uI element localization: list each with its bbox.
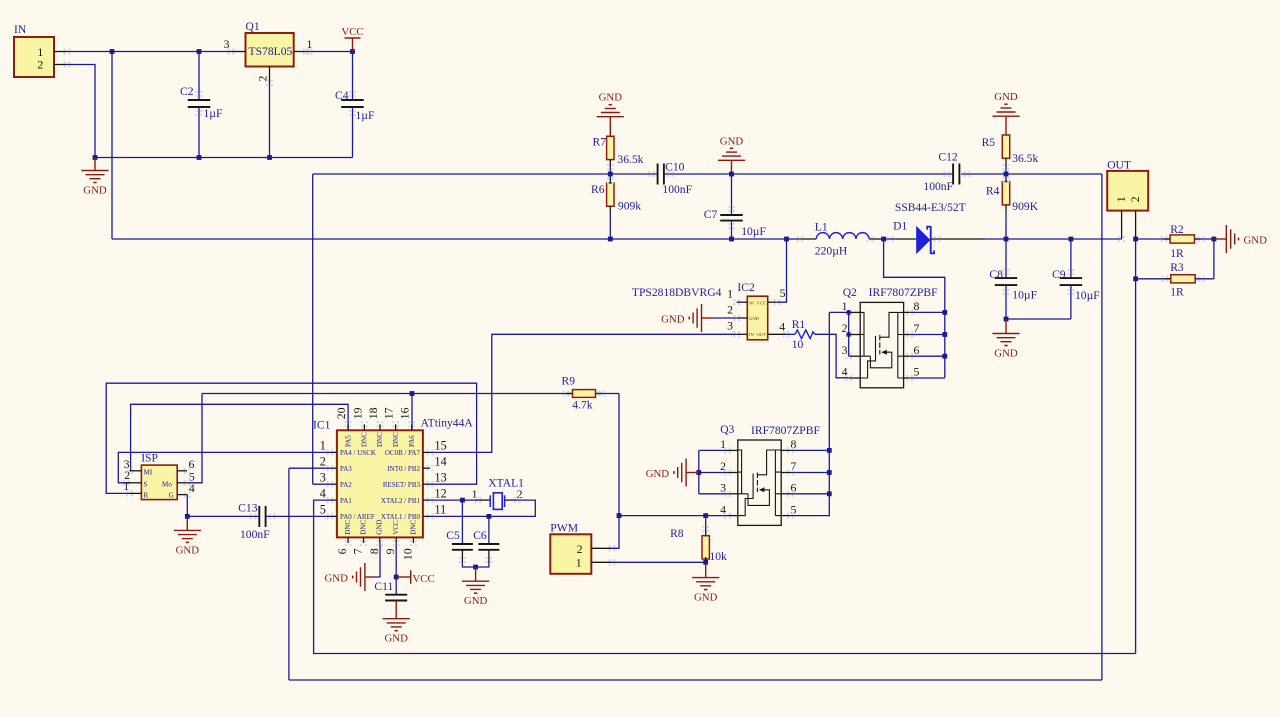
- svg-text:2: 2: [320, 455, 326, 469]
- svg-text:GND: GND: [749, 316, 760, 321]
- svg-text:D1: D1: [893, 219, 907, 232]
- svg-text:3: 3: [320, 471, 326, 485]
- svg-text:DNC: DNC: [359, 520, 367, 535]
- svg-text:GND: GND: [599, 92, 623, 104]
- svg-text:SSB44-E3/52T: SSB44-E3/52T: [895, 201, 966, 214]
- svg-text:OC0B / PA7: OC0B / PA7: [385, 449, 421, 457]
- svg-text:XTAL2 / PB1: XTAL2 / PB1: [381, 497, 421, 505]
- svg-text:Mo: Mo: [162, 481, 172, 489]
- svg-text:10µF: 10µF: [741, 225, 766, 238]
- svg-text:1: 1: [727, 287, 733, 301]
- svg-text:PA1: PA1: [340, 497, 352, 505]
- svg-text:8: 8: [914, 299, 920, 313]
- svg-text:R1: R1: [792, 318, 806, 331]
- svg-text:DNC: DNC: [376, 432, 384, 447]
- svg-text:10µF: 10µF: [1075, 289, 1100, 302]
- svg-text:C13: C13: [238, 501, 258, 514]
- svg-text:2: 2: [37, 58, 43, 72]
- svg-text:10: 10: [792, 338, 804, 351]
- svg-text:R9: R9: [562, 375, 576, 388]
- svg-text:PA0 / AREF: PA0 / AREF: [340, 513, 375, 521]
- svg-text:ATtiny44A: ATtiny44A: [421, 417, 474, 430]
- svg-text:7: 7: [914, 321, 920, 335]
- svg-text:1: 1: [576, 556, 582, 570]
- svg-text:R2: R2: [1170, 223, 1184, 236]
- svg-text:C4: C4: [335, 89, 349, 102]
- svg-text:S: S: [144, 481, 148, 489]
- svg-text:RESET/ PB3: RESET/ PB3: [383, 481, 421, 489]
- svg-text:4.7k: 4.7k: [572, 399, 592, 412]
- svg-text:IN: IN: [14, 23, 27, 36]
- svg-text:R: R: [144, 492, 149, 500]
- svg-text:R5: R5: [982, 136, 996, 149]
- svg-text:17: 17: [382, 407, 396, 419]
- svg-text:GND: GND: [661, 314, 685, 326]
- svg-text:18: 18: [366, 407, 380, 419]
- svg-text:9: 9: [383, 548, 397, 554]
- svg-text:11: 11: [435, 503, 447, 517]
- svg-text:C2: C2: [180, 85, 194, 98]
- svg-text:PA2: PA2: [340, 481, 352, 489]
- svg-text:DNC: DNC: [392, 432, 400, 447]
- svg-text:100nF: 100nF: [923, 180, 953, 193]
- svg-text:MI: MI: [144, 469, 153, 477]
- svg-text:1R: 1R: [1170, 247, 1184, 260]
- svg-text:C11: C11: [374, 580, 393, 593]
- svg-text:13: 13: [435, 471, 447, 485]
- svg-text:IC1: IC1: [313, 419, 331, 432]
- svg-text:16: 16: [398, 407, 412, 419]
- svg-text:GND: GND: [83, 185, 107, 197]
- svg-text:1: 1: [320, 439, 326, 453]
- svg-text:4: 4: [320, 486, 326, 500]
- svg-text:909k: 909k: [618, 199, 641, 212]
- svg-text:IRF7807ZPBF: IRF7807ZPBF: [751, 424, 820, 437]
- svg-text:6: 6: [914, 343, 920, 357]
- svg-text:36.5k: 36.5k: [617, 153, 643, 166]
- svg-text:PA5: PA5: [344, 435, 352, 447]
- svg-text:GND: GND: [646, 468, 670, 480]
- svg-text:10k: 10k: [709, 550, 727, 563]
- svg-text:3: 3: [727, 319, 733, 333]
- svg-text:PWM: PWM: [550, 522, 578, 535]
- svg-text:OUT: OUT: [757, 332, 767, 337]
- svg-text:6: 6: [335, 548, 349, 554]
- svg-text:R4: R4: [986, 185, 1000, 198]
- svg-text:NC: NC: [749, 300, 755, 305]
- svg-text:1µF: 1µF: [204, 107, 223, 120]
- svg-text:7: 7: [351, 548, 365, 554]
- svg-text:GND: GND: [1244, 235, 1268, 247]
- svg-text:2: 2: [1128, 196, 1142, 202]
- svg-text:100nF: 100nF: [240, 528, 270, 541]
- svg-text:VCC: VCC: [392, 520, 400, 535]
- svg-text:GND: GND: [176, 544, 200, 556]
- svg-text:INT0 / PB2: INT0 / PB2: [387, 465, 420, 473]
- svg-text:TS78L05: TS78L05: [249, 45, 293, 58]
- svg-text:L1: L1: [815, 221, 828, 234]
- svg-text:1R: 1R: [1170, 286, 1184, 299]
- svg-text:GND: GND: [324, 573, 348, 585]
- svg-text:GND: GND: [384, 633, 408, 645]
- svg-text:100nF: 100nF: [662, 183, 692, 196]
- svg-text:Q1: Q1: [246, 20, 260, 33]
- svg-text:DNC: DNC: [409, 520, 417, 535]
- svg-text:R8: R8: [670, 527, 684, 540]
- svg-text:8: 8: [367, 548, 381, 554]
- svg-text:R6: R6: [591, 183, 605, 196]
- svg-text:14: 14: [435, 455, 447, 469]
- svg-text:XTAL1 / PB0: XTAL1 / PB0: [381, 513, 421, 521]
- svg-text:TPS2818DBVRG4: TPS2818DBVRG4: [632, 286, 722, 299]
- svg-text:220µH: 220µH: [815, 245, 848, 258]
- svg-text:G: G: [169, 492, 174, 500]
- svg-text:IN: IN: [749, 332, 755, 337]
- svg-text:GND: GND: [376, 520, 384, 535]
- svg-text:C7: C7: [704, 208, 718, 221]
- svg-text:PA6: PA6: [408, 435, 416, 447]
- svg-text:PA3: PA3: [340, 465, 352, 473]
- svg-text:5: 5: [780, 286, 786, 300]
- svg-text:GND: GND: [994, 348, 1018, 360]
- svg-text:IC2: IC2: [737, 281, 755, 294]
- svg-text:20: 20: [334, 407, 348, 419]
- svg-text:GND: GND: [720, 135, 744, 147]
- svg-text:1: 1: [472, 487, 478, 501]
- svg-text:VCC: VCC: [413, 573, 435, 585]
- svg-text:DNC: DNC: [344, 520, 352, 535]
- svg-text:R7: R7: [592, 136, 606, 149]
- svg-text:C5: C5: [446, 529, 460, 542]
- svg-text:36.5k: 36.5k: [1012, 152, 1038, 165]
- svg-text:VCC: VCC: [757, 300, 766, 305]
- svg-text:DNC: DNC: [361, 432, 369, 447]
- svg-text:PA4 / USCK: PA4 / USCK: [340, 449, 376, 457]
- svg-text:5: 5: [320, 503, 326, 517]
- svg-text:C8: C8: [989, 268, 1003, 281]
- svg-text:ISP: ISP: [141, 452, 158, 465]
- svg-text:VCC: VCC: [341, 26, 363, 38]
- svg-text:10: 10: [400, 548, 414, 560]
- svg-text:19: 19: [350, 407, 364, 419]
- svg-text:2: 2: [577, 542, 583, 556]
- svg-text:Q2: Q2: [843, 286, 857, 299]
- svg-text:IRF7807ZPBF: IRF7807ZPBF: [869, 286, 938, 299]
- svg-text:2: 2: [727, 302, 733, 316]
- svg-text:12: 12: [435, 486, 447, 500]
- svg-text:10µF: 10µF: [1012, 288, 1037, 301]
- svg-text:OUT: OUT: [1107, 158, 1131, 171]
- svg-text:C12: C12: [938, 151, 958, 164]
- svg-text:1: 1: [1114, 196, 1128, 202]
- svg-text:C6: C6: [473, 529, 487, 542]
- svg-text:Q3: Q3: [720, 423, 734, 436]
- svg-text:GND: GND: [464, 595, 488, 607]
- svg-text:GND: GND: [994, 91, 1018, 103]
- svg-text:5: 5: [914, 365, 920, 379]
- svg-text:909K: 909K: [1012, 200, 1038, 213]
- svg-text:1µF: 1µF: [356, 109, 375, 122]
- svg-text:15: 15: [435, 439, 447, 453]
- svg-text:R3: R3: [1170, 261, 1184, 274]
- svg-text:C9: C9: [1052, 268, 1066, 281]
- svg-text:GND: GND: [694, 592, 718, 604]
